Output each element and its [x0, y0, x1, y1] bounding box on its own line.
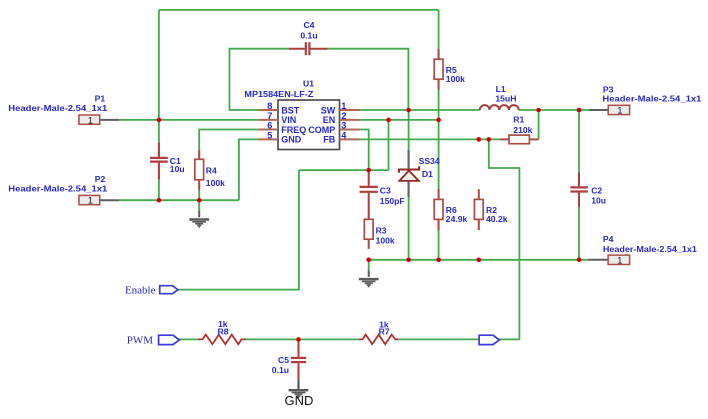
svg-text:210k: 210k: [513, 125, 532, 135]
svg-text:C3: C3: [380, 185, 391, 195]
pin 7 VIN stub: [259, 119, 279, 121]
wire P1 gray stub: [100, 119, 120, 121]
svg-text:1: 1: [617, 106, 622, 117]
resistor R7 zigzag: [359, 335, 399, 345]
node C2 top junction: [577, 108, 582, 113]
capacitor C2: [569, 173, 588, 207]
ground symbol bottom rail: [359, 270, 379, 287]
wire P2 gray stub: [100, 199, 120, 201]
node L1/R1 junction: [536, 108, 541, 113]
node EN/R5/R6 junction: [436, 118, 441, 123]
wire top loop from left column to R5 column: [159, 9, 439, 11]
wire R7 to output pennant: [399, 338, 480, 340]
wire COMP down to C3 node: [360, 130, 369, 171]
ground symbol left rail: [189, 210, 209, 227]
svg-text:P2: P2: [95, 174, 106, 184]
pin 3 COMP stub: [340, 129, 360, 131]
wire GND pin to left rail: [239, 139, 259, 200]
svg-text:1: 1: [88, 115, 93, 126]
node rail C2 junction: [577, 258, 582, 263]
net flag Enable: [125, 284, 178, 296]
wire L1 to P3: [519, 109, 590, 111]
wire left column P1/C1 vertical: [158, 10, 160, 200]
node COMP/C3/Enable junction: [366, 168, 371, 173]
svg-text:3: 3: [341, 121, 346, 131]
header P4: [603, 234, 697, 267]
svg-text:1: 1: [617, 256, 622, 267]
capacitor C1: [149, 143, 169, 180]
svg-text:7: 7: [267, 111, 272, 121]
svg-text:PWM: PWM: [127, 335, 154, 347]
wire R8 to C5 node to R7: [246, 338, 359, 340]
svg-text:150pF: 150pF: [380, 196, 405, 206]
header P3: [602, 85, 701, 117]
svg-text:R3: R3: [376, 225, 387, 235]
svg-text:100k: 100k: [376, 235, 395, 245]
diode D1 SS34: [399, 150, 419, 197]
svg-text:R7: R7: [379, 327, 390, 337]
header P1: [8, 93, 107, 126]
wire left rail ground stub: [198, 200, 200, 210]
svg-text:Header-Male-2.54_1x1: Header-Male-2.54_1x1: [603, 244, 697, 254]
node P2/C1 junction: [157, 198, 162, 203]
svg-text:C5: C5: [278, 355, 289, 365]
wire rail ground stub: [368, 260, 370, 270]
node SW/C4/D1 junction: [406, 108, 411, 113]
svg-text:1: 1: [88, 196, 93, 207]
wire EN pin to R5 column: [360, 119, 439, 121]
inductor L1: [480, 105, 519, 110]
svg-text:1: 1: [341, 101, 346, 111]
svg-text:Header-Male-2.54_1x1: Header-Male-2.54_1x1: [602, 93, 701, 103]
resistor R6: [434, 189, 443, 230]
svg-text:4: 4: [341, 130, 347, 140]
wire D1 anode down to ground rail: [408, 197, 410, 259]
wire P3 gray stub: [590, 109, 609, 111]
pin 1 SW stub: [340, 109, 360, 111]
pin 6 FREQ stub: [259, 129, 279, 131]
svg-text:R4: R4: [206, 165, 217, 175]
wire EN node drop: [388, 120, 390, 170]
svg-text:D1: D1: [422, 169, 433, 179]
node rail R2 junction: [477, 258, 482, 263]
svg-text:10u: 10u: [170, 164, 185, 174]
svg-text:15uH: 15uH: [495, 93, 516, 103]
svg-text:U1: U1: [303, 78, 314, 88]
svg-text:EN: EN: [323, 115, 336, 125]
wire P4 gray stub: [588, 259, 608, 261]
svg-text:COMP: COMP: [308, 125, 335, 135]
svg-text:5: 5: [267, 130, 272, 140]
pin 5 GND stub: [259, 138, 279, 140]
node rail R6 junction: [436, 258, 441, 263]
ground symbol GND under C5: [289, 379, 309, 397]
svg-text:2: 2: [341, 111, 346, 121]
svg-text:FB: FB: [323, 135, 335, 145]
svg-text:R8: R8: [218, 326, 229, 336]
resistor R4: [195, 150, 204, 190]
resistor R8 zigzag: [198, 335, 246, 345]
svg-text:Header-Male-2.54_1x1: Header-Male-2.54_1x1: [8, 103, 107, 113]
pin 2 EN stub: [340, 119, 360, 121]
wire PWM pennant to R8: [179, 338, 198, 340]
svg-text:P4: P4: [603, 234, 614, 244]
wire FB line: [360, 138, 500, 140]
wire C2 column: [578, 110, 580, 260]
svg-text:GND: GND: [285, 393, 314, 408]
svg-text:SS34: SS34: [419, 156, 440, 166]
wire SW node down to D1: [408, 110, 410, 150]
wire bottom ground rail: [369, 259, 588, 261]
net flag PWM: [127, 335, 180, 347]
svg-text:24.9k: 24.9k: [446, 214, 468, 224]
svg-text:L1: L1: [496, 84, 506, 94]
svg-text:P1: P1: [95, 93, 106, 103]
wire jog enable node horizontal: [299, 169, 389, 171]
svg-text:MP1584EN-LF-Z: MP1584EN-LF-Z: [244, 89, 313, 99]
svg-text:Enable: Enable: [125, 284, 156, 296]
svg-text:0.1u: 0.1u: [300, 30, 317, 40]
node rail R3 junction: [366, 258, 371, 263]
svg-text:0.1u: 0.1u: [272, 365, 289, 375]
node PWM/C5 junction: [296, 337, 301, 342]
svg-text:VIN: VIN: [281, 115, 296, 125]
op-amp U1 MP1584EN-LF-Z body: [244, 78, 359, 149]
svg-text:40.2k: 40.2k: [486, 214, 508, 224]
wire FB jog down to PWM pennant: [489, 139, 520, 339]
pin 4 FB stub: [340, 138, 360, 140]
svg-text:Header-Male-2.54_1x1: Header-Male-2.54_1x1: [8, 184, 107, 194]
capacitor C3: [360, 170, 378, 219]
node R4 bottom junction: [197, 198, 202, 203]
wire BST to C4 left leg: [230, 49, 289, 110]
node FB/R2 junction: [477, 137, 482, 142]
resistor R5: [434, 49, 443, 90]
resistor R2: [474, 189, 483, 230]
capacitor C5: [291, 339, 306, 379]
svg-text:10u: 10u: [591, 195, 606, 205]
svg-text:100k: 100k: [206, 178, 225, 188]
pin 8 BST stub: [259, 109, 279, 111]
svg-text:100k: 100k: [446, 74, 465, 84]
svg-text:C4: C4: [304, 20, 315, 30]
node EN drop junction: [386, 118, 391, 123]
header P2: [8, 174, 107, 207]
svg-text:FREQ: FREQ: [281, 125, 306, 135]
wire left ground rail P2: [119, 199, 239, 201]
svg-text:GND: GND: [281, 135, 302, 145]
net flag output: [479, 335, 499, 344]
wire R1 right leg up to SW: [538, 110, 540, 139]
svg-text:C2: C2: [591, 185, 602, 195]
wire SW to L1: [360, 109, 480, 111]
node FB jog junction: [487, 137, 492, 142]
wire C4 right leg down to SW node: [328, 49, 409, 110]
wire Enable run: [178, 170, 299, 290]
wire R5/R6 column vertical: [438, 10, 440, 260]
svg-text:SW: SW: [321, 105, 336, 115]
resistor R3: [364, 219, 373, 249]
svg-text:R1: R1: [513, 115, 524, 125]
node rail D1 junction: [406, 258, 411, 263]
svg-text:6: 6: [267, 121, 272, 131]
svg-text:8: 8: [267, 101, 272, 111]
svg-text:BST: BST: [281, 105, 300, 115]
wire P1 to VIN: [119, 119, 258, 121]
resistor R1: [500, 135, 539, 144]
node P1/VIN junction: [157, 118, 162, 123]
capacitor C4: [289, 42, 328, 55]
wire FREQ to R4: [199, 130, 258, 201]
